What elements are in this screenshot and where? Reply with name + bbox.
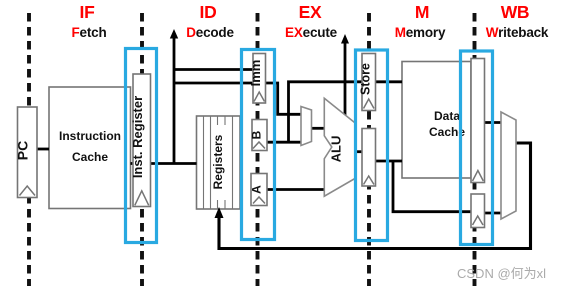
wire M/WB small latch out to WB mux bottom input <box>485 212 502 215</box>
register file box <box>197 116 241 209</box>
svg-text:Decode: Decode <box>186 25 234 40</box>
stage boundary dashed line ID/EX <box>256 13 260 286</box>
wire EX vertical arrow up <box>344 40 347 115</box>
wire B branch up to store/cache line <box>289 82 346 142</box>
svg-text:A: A <box>250 185 264 194</box>
svg-text:Instruction: Instruction <box>59 129 121 143</box>
Imm latch <box>248 54 266 104</box>
svg-text:PC: PC <box>15 141 31 160</box>
wire mux output to ALU upper input <box>312 127 326 130</box>
svg-text:Store: Store <box>358 63 372 95</box>
wire vertical next-PC feedback with arrow up <box>173 35 176 164</box>
svg-text:M: M <box>415 2 429 22</box>
inst. register latch <box>130 74 150 207</box>
svg-text:CSDN @何为xl: CSDN @何为xl <box>457 266 546 281</box>
M/WB small latch <box>471 194 485 228</box>
stage boundary dashed line IF (left) <box>27 13 31 286</box>
wire stub to Imm input lower <box>174 82 253 85</box>
stage boundary dashed line M/WB <box>473 13 477 286</box>
svg-text:ID: ID <box>200 2 217 22</box>
svg-text:Inst. Register: Inst. Register <box>130 96 145 178</box>
wire A output to ALU lower input <box>267 188 325 191</box>
svg-text:ALU: ALU <box>329 136 344 163</box>
svg-text:Writeback: Writeback <box>486 25 549 40</box>
PC latch <box>15 107 38 198</box>
EX/M result latch <box>362 129 376 187</box>
B latch <box>250 120 268 151</box>
store latch <box>358 54 375 111</box>
svg-text:EXecute: EXecute <box>285 25 338 40</box>
wire stub to Imm input upper <box>174 68 253 71</box>
ALU <box>324 98 356 196</box>
svg-text:Fetch: Fetch <box>71 25 106 40</box>
blue highlight IF/ID register <box>126 49 157 243</box>
wire Imm output to mux top input <box>266 83 302 114</box>
wire EX/M latch out to cache address and down to M/WB small latch <box>376 160 403 163</box>
wire ALU output to EX/M latch <box>356 150 362 153</box>
A latch <box>250 174 268 206</box>
svg-text:B: B <box>250 130 264 139</box>
wire instruction cache to inst. register <box>131 162 134 165</box>
wire PC to instruction cache <box>37 148 49 151</box>
stage boundary dashed line IF/ID <box>140 13 144 286</box>
wire M/WB tall latch out to WB mux top input <box>485 121 502 124</box>
wire writeback bus from mux to registers with arrow up <box>219 143 531 249</box>
wire inst. register to registers <box>151 162 197 165</box>
svg-text:EX: EX <box>299 2 322 22</box>
svg-text:WB: WB <box>501 2 530 22</box>
blue highlight ID/EX registers <box>242 50 275 240</box>
blue highlight M/WB registers <box>461 51 493 245</box>
svg-text:Registers: Registers <box>211 134 225 189</box>
wire B output to mux bottom input <box>267 141 301 144</box>
svg-text:IF: IF <box>80 2 96 22</box>
svg-text:Cache: Cache <box>72 150 108 164</box>
EX operand mux <box>301 107 312 146</box>
M/WB tall latch <box>471 59 485 183</box>
WB mux <box>501 112 516 219</box>
svg-text:Data: Data <box>434 109 460 123</box>
svg-text:Imm: Imm <box>248 60 263 87</box>
svg-text:Memory: Memory <box>395 25 446 40</box>
stage boundary dashed line EX/M <box>367 13 371 286</box>
data cache box <box>402 62 471 179</box>
blue highlight EX/M registers <box>356 50 388 241</box>
instruction cache box <box>49 87 131 209</box>
wire store data line into store latch and to data cache <box>345 80 402 83</box>
